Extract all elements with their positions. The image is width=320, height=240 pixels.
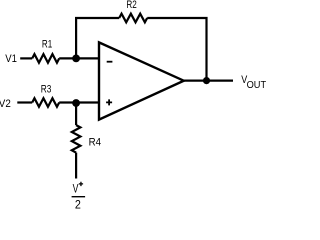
wire output [184,79,233,81]
op-amp non-inverting input label [106,99,112,105]
junction inverting node [72,55,80,63]
resistor R1 [32,54,59,63]
wire R1 to op-amp inverting input [59,57,99,59]
junction output node [203,77,210,84]
resistor R2 [119,14,147,23]
op-amp inverting input label [107,61,113,63]
svg-text:OUT: OUT [247,80,267,91]
net V+/2 label [72,182,86,212]
wire feedback left vertical and top left [76,18,119,58]
wire V2 lead [17,101,32,103]
op-amp U1 [99,42,184,119]
svg-text:R2: R2 [126,0,136,11]
resistor R4 [72,125,81,153]
node VOUT [241,74,266,91]
wire feedback top right and right vertical to output [147,18,206,81]
svg-text:R1: R1 [42,39,52,51]
svg-text:V: V [73,182,79,196]
svg-text:V2: V2 [0,98,11,110]
junction non-inverting node [72,99,80,107]
wire V1 lead [20,57,32,59]
wire junction to R4 [75,103,77,126]
svg-text:V1: V1 [5,53,17,65]
wire R3 to op-amp non-inverting input [59,101,99,103]
svg-text:R4: R4 [89,137,101,149]
resistor R3 [32,98,59,107]
wire below R4 [75,153,77,179]
svg-text:2: 2 [75,197,81,210]
svg-text:R3: R3 [41,84,52,96]
